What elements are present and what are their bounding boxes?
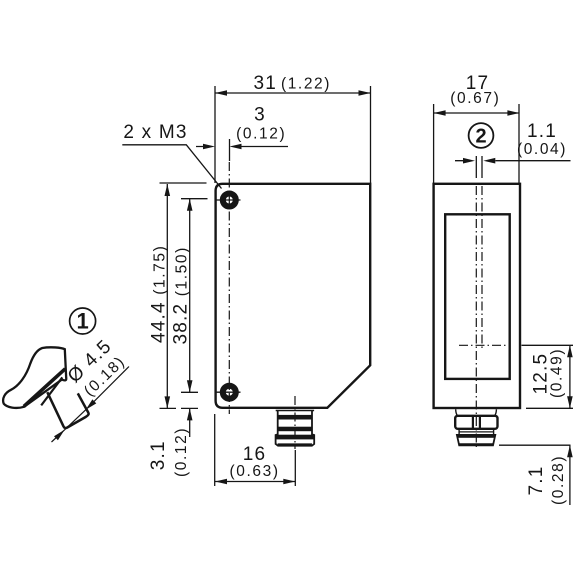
optical axis crosshair <box>459 344 506 346</box>
svg-text:2: 2 <box>475 126 486 148</box>
svg-text:31: 31 <box>254 73 278 94</box>
mounting hole bottom <box>223 386 236 399</box>
side view lens window inner rect <box>445 214 510 379</box>
dimension 1.1 (0.04) <box>455 160 571 162</box>
svg-text:(0.67): (0.67) <box>450 90 500 107</box>
dimension 38.2 vertical <box>189 199 191 393</box>
svg-text:38.2 (1.50): 38.2 (1.50) <box>171 246 192 344</box>
svg-text:7.1: 7.1 <box>526 465 547 495</box>
svg-text:(1.22): (1.22) <box>281 75 331 92</box>
dimension 3.1 vertical <box>189 408 191 437</box>
dimension 12.5 (0.49) <box>569 345 571 408</box>
mounting hole top crosshair <box>216 199 241 201</box>
hole center line <box>228 162 230 414</box>
svg-text:3: 3 <box>254 104 266 125</box>
mounting hole bottom crosshair <box>216 391 241 393</box>
label circle 2 <box>469 123 494 148</box>
dimension 44.4 vertical <box>166 184 168 408</box>
bracket icon wing <box>3 347 66 408</box>
svg-text:1: 1 <box>76 309 88 334</box>
dimension 7.1 (0.28) <box>569 445 571 505</box>
svg-text:(0.28): (0.28) <box>550 455 567 505</box>
bracket plate edge <box>41 377 62 405</box>
svg-text:(0.49): (0.49) <box>548 348 565 398</box>
front view body outline <box>216 184 371 408</box>
bracket cylinder pin <box>47 392 88 428</box>
svg-text:3.1: 3.1 <box>148 440 169 470</box>
leader 2xM3 <box>122 145 221 189</box>
dimension 16 (0.63) <box>215 481 295 483</box>
svg-text:44.4 (1.75): 44.4 (1.75) <box>149 245 170 343</box>
dimension 31 (1.22) <box>215 92 371 94</box>
svg-text:1.1: 1.1 <box>527 121 557 142</box>
svg-text:(0.04): (0.04) <box>517 141 567 158</box>
dimension 17 (0.67) <box>434 112 520 114</box>
front connector center line <box>294 396 296 449</box>
svg-text:16: 16 <box>243 444 267 465</box>
svg-text:(0.12): (0.12) <box>236 125 286 142</box>
label circle 1 <box>70 308 96 334</box>
side connector <box>455 409 497 445</box>
mounting hole top <box>223 194 236 207</box>
bracket fold thick edge <box>24 369 65 407</box>
side view center line <box>475 156 477 178</box>
optical axis line <box>481 156 483 178</box>
dimension dia 4.5 leader <box>52 367 130 443</box>
dimension 3 (0.12) <box>196 146 288 148</box>
front connector <box>276 411 315 446</box>
svg-text:(0.12): (0.12) <box>173 427 190 477</box>
side view body outline <box>434 184 520 408</box>
svg-text:2 x M3: 2 x M3 <box>123 122 187 143</box>
svg-text:(0.63): (0.63) <box>230 463 280 480</box>
